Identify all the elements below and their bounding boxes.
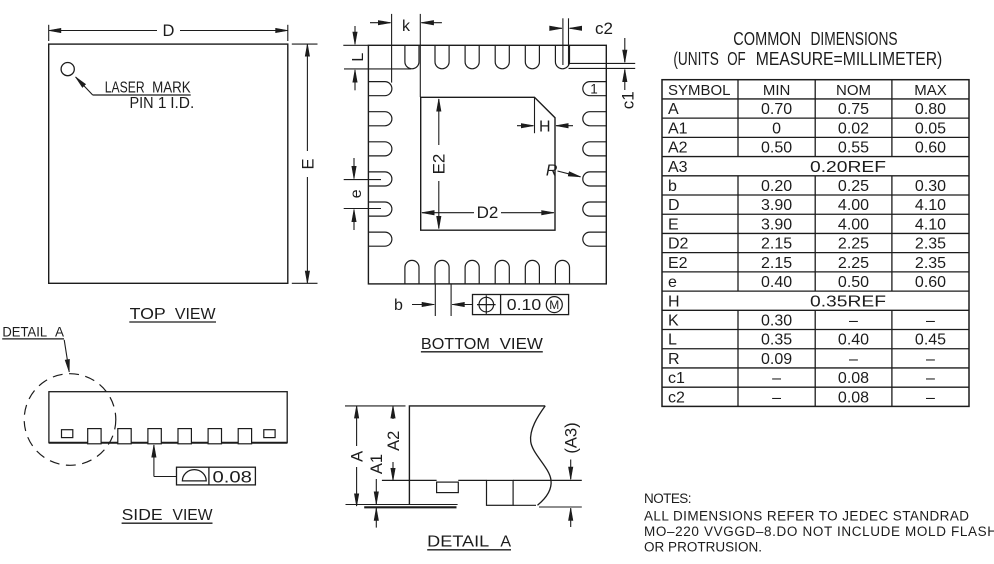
svg-text:D2: D2 (668, 236, 689, 253)
label DETAIL A underline (2, 338, 64, 340)
dimension b extension lines (434, 284, 436, 316)
svg-text:1: 1 (590, 82, 598, 97)
laser mark circle pin 1 indicator (61, 63, 74, 76)
dimension k arrows (370, 22, 391, 24)
dimension b arrows (412, 304, 434, 306)
svg-text:0.20REF: 0.20REF (810, 159, 886, 176)
svg-text:2.35: 2.35 (915, 255, 946, 272)
svg-text:0.75: 0.75 (838, 101, 869, 118)
svg-text:OR PROTRUSION.: OR PROTRUSION. (644, 540, 762, 555)
svg-text:4.10: 4.10 (915, 216, 946, 233)
dimension L extension top (343, 44, 368, 46)
svg-text:e: e (668, 274, 677, 291)
dimension e arrows (353, 158, 355, 179)
svg-text:2.25: 2.25 (838, 255, 869, 272)
svg-text:2.35: 2.35 (915, 236, 946, 253)
detail A seating extension right (539, 506, 582, 508)
dimension E line with arrows (306, 44, 308, 151)
svg-text:A: A (349, 451, 367, 462)
svg-text:0.09: 0.09 (761, 351, 792, 368)
svg-text:H: H (539, 119, 551, 136)
dimension A1 arrows (375, 479, 377, 504)
svg-text:0.30: 0.30 (915, 178, 946, 195)
svg-text:4.10: 4.10 (915, 197, 946, 214)
svg-text:3.90: 3.90 (761, 197, 792, 214)
svg-text:–: – (926, 313, 935, 330)
svg-text:b: b (668, 178, 677, 195)
detail A bottom right line (513, 504, 536, 506)
svg-text:COMMON: COMMON (733, 29, 801, 49)
dimension D extension line left (48, 25, 50, 41)
svg-text:D: D (668, 197, 680, 214)
svg-text:H: H (668, 293, 680, 310)
svg-text:0.02: 0.02 (838, 120, 869, 137)
svg-text:0.25: 0.25 (838, 178, 869, 195)
svg-text:E: E (668, 216, 679, 233)
svg-text:L: L (668, 332, 677, 349)
svg-text:ALL DIMENSIONS REFER TO JEDEC: ALL DIMENSIONS REFER TO JEDEC STANDRAD (644, 508, 969, 523)
dimension e extension top (344, 179, 381, 181)
svg-text:A1: A1 (668, 120, 688, 137)
title DETAIL A view underline (427, 549, 511, 551)
svg-text:0.08: 0.08 (838, 389, 869, 406)
svg-text:R: R (668, 351, 680, 368)
svg-text:VIEW: VIEW (175, 306, 217, 323)
svg-text:MIN: MIN (763, 82, 791, 99)
svg-text:MEASURE=MILLIMETER): MEASURE=MILLIMETER) (756, 49, 943, 69)
svg-text:DIMENSIONS: DIMENSIONS (811, 29, 898, 49)
svg-text:2.25: 2.25 (838, 236, 869, 253)
detail A bottom lead (487, 480, 514, 505)
svg-text:b: b (394, 297, 403, 314)
side view seating edge (49, 442, 287, 444)
dimension L extension bottom (344, 68, 411, 70)
svg-text:0.80: 0.80 (915, 101, 946, 118)
coplanarity symbol half circle (182, 470, 206, 481)
svg-text:0.50: 0.50 (838, 274, 869, 291)
svg-text:MO–220 VVGGD–8.DO NOT INCLUDE: MO–220 VVGGD–8.DO NOT INCLUDE MOLD FLASH (644, 524, 994, 539)
svg-text:I.D.: I.D. (170, 95, 194, 112)
svg-text:A1: A1 (368, 454, 386, 474)
svg-text:2.15: 2.15 (761, 236, 792, 253)
dimension A2 line with arrows (392, 406, 394, 419)
dimension D extension line right (287, 25, 289, 41)
svg-text:0.40: 0.40 (761, 274, 792, 291)
dimension E extension line bottom (292, 282, 318, 284)
bottom view package body outline (368, 45, 606, 284)
svg-text:D: D (163, 22, 175, 40)
dimension L arrows (354, 26, 356, 44)
material condition symbol M (546, 297, 562, 313)
title BOTTOM VIEW underline (421, 351, 543, 353)
svg-text:0.50: 0.50 (761, 140, 792, 157)
svg-text:(UNITS: (UNITS (673, 49, 718, 69)
svg-text:MAX: MAX (914, 82, 947, 99)
table outer border (662, 80, 969, 407)
bottom view right edge pads (583, 82, 607, 247)
svg-text:0.60: 0.60 (915, 274, 946, 291)
svg-text:PIN: PIN (130, 95, 154, 112)
svg-text:SYMBOL: SYMBOL (668, 82, 731, 99)
svg-text:BOTTOM: BOTTOM (421, 336, 490, 353)
dimension E2 line with arrows (438, 99, 440, 145)
laser mark leader arrow (76, 77, 93, 95)
detail A mold step line (382, 479, 437, 481)
dimension k extension line left (391, 14, 393, 83)
svg-text:0.20: 0.20 (761, 178, 792, 195)
svg-text:0.30: 0.30 (761, 313, 792, 330)
svg-text:0.40: 0.40 (838, 332, 869, 349)
detail A boundary dashed circle (24, 374, 116, 466)
dimension e extension bottom (344, 208, 381, 210)
svg-text:R: R (546, 162, 558, 179)
svg-text:MARK: MARK (152, 79, 191, 96)
dimension E extension line top (292, 43, 318, 45)
svg-text:1: 1 (158, 95, 167, 112)
coplanarity feature control frame (177, 467, 256, 485)
svg-text:VIEW: VIEW (500, 336, 544, 353)
svg-text:c2: c2 (668, 389, 685, 406)
svg-text:VIEW: VIEW (173, 507, 214, 524)
exposed pad with chamfer corner (421, 97, 555, 230)
svg-text:L: L (350, 53, 367, 62)
bottom view bottom edge pads (405, 260, 570, 284)
svg-text:–: – (926, 389, 935, 406)
svg-text:k: k (402, 18, 411, 35)
svg-text:–: – (849, 351, 858, 368)
svg-text:4.00: 4.00 (838, 216, 869, 233)
dimension A3 arrows (570, 460, 572, 480)
svg-text:e: e (348, 189, 365, 198)
svg-text:–: – (926, 351, 935, 368)
svg-text:0.60: 0.60 (915, 140, 946, 157)
svg-text:OF: OF (727, 49, 746, 69)
dimension D line with arrows (49, 30, 157, 32)
svg-text:A: A (500, 534, 511, 551)
svg-text:DETAIL: DETAIL (427, 534, 489, 551)
svg-text:A3: A3 (668, 159, 688, 176)
table cell text (668, 82, 947, 407)
svg-text:SIDE: SIDE (122, 507, 163, 524)
svg-text:0.08: 0.08 (838, 370, 869, 387)
svg-text:c1: c1 (618, 91, 637, 109)
detail A body outline (409, 406, 545, 505)
tolerance feature control frame (473, 295, 569, 315)
dimension A top extension (345, 405, 406, 407)
svg-text:–: – (772, 389, 781, 406)
svg-text:0.70: 0.70 (761, 101, 792, 118)
svg-text:0.08: 0.08 (213, 467, 252, 486)
svg-text:M: M (549, 298, 559, 312)
svg-text:0.10: 0.10 (507, 297, 542, 314)
detail A leader arrow (64, 340, 69, 372)
svg-text:4.00: 4.00 (838, 197, 869, 214)
dimension A line with arrows (356, 406, 358, 446)
table row lines (662, 99, 969, 387)
dimension c1 extension lines (569, 62, 636, 64)
laser mark label underline (93, 94, 191, 96)
title TOP VIEW underline (129, 321, 216, 323)
side view corner pad left (62, 430, 73, 438)
bottom view top edge pads (405, 45, 570, 69)
svg-text:(A3): (A3) (562, 422, 580, 453)
dimension k extension line right (419, 14, 421, 97)
dimension c1 arrows (624, 38, 626, 62)
svg-text:c2: c2 (595, 19, 613, 38)
svg-text:3.90: 3.90 (761, 216, 792, 233)
svg-text:NOTES:: NOTES: (644, 491, 692, 506)
svg-text:–: – (926, 370, 935, 387)
side view package body outline (49, 392, 287, 443)
svg-text:0.45: 0.45 (915, 332, 946, 349)
detail A body bottom line (346, 504, 458, 506)
side view corner pad right (264, 430, 275, 438)
svg-text:DETAIL: DETAIL (2, 325, 47, 340)
dimension D2 line with arrows (422, 212, 474, 214)
svg-text:A: A (55, 325, 64, 340)
svg-text:LASER: LASER (105, 79, 145, 96)
svg-text:A2: A2 (385, 431, 403, 451)
svg-text:–: – (849, 313, 858, 330)
coplanarity leader arrow (153, 445, 155, 477)
svg-text:0: 0 (772, 120, 781, 137)
svg-text:A: A (668, 101, 679, 118)
top view package body outline (49, 44, 288, 283)
svg-text:0.05: 0.05 (915, 120, 946, 137)
dimension H arrows (517, 125, 533, 127)
svg-text:E2: E2 (429, 154, 448, 175)
side view bottom leads (88, 429, 252, 444)
svg-text:A2: A2 (668, 140, 688, 157)
detail A embedded lead (437, 482, 459, 493)
detail A seating plane thick line (364, 506, 456, 508)
svg-text:D2: D2 (477, 203, 499, 222)
svg-text:–: – (772, 370, 781, 387)
true position symbol (479, 297, 494, 312)
svg-text:K: K (668, 313, 679, 330)
dimension H extension line (534, 97, 536, 133)
svg-text:0.55: 0.55 (838, 140, 869, 157)
svg-text:E2: E2 (668, 255, 688, 272)
title SIDE VIEW underline (122, 522, 213, 524)
svg-text:NOM: NOM (836, 82, 871, 99)
svg-text:2.15: 2.15 (761, 255, 792, 272)
notes text block (644, 491, 994, 555)
bottom view left edge pads (368, 82, 392, 247)
dimension c2 extension lines (562, 18, 564, 65)
svg-text:E: E (299, 158, 317, 169)
svg-text:0.35: 0.35 (761, 332, 792, 349)
table column lines (738, 80, 892, 407)
svg-text:0.35REF: 0.35REF (810, 293, 886, 310)
svg-text:TOP: TOP (130, 306, 166, 323)
radius leader arrow (558, 171, 581, 177)
detail A break wavy line (531, 406, 552, 505)
dimension c2 arrows (552, 27, 562, 29)
svg-text:c1: c1 (668, 370, 685, 387)
